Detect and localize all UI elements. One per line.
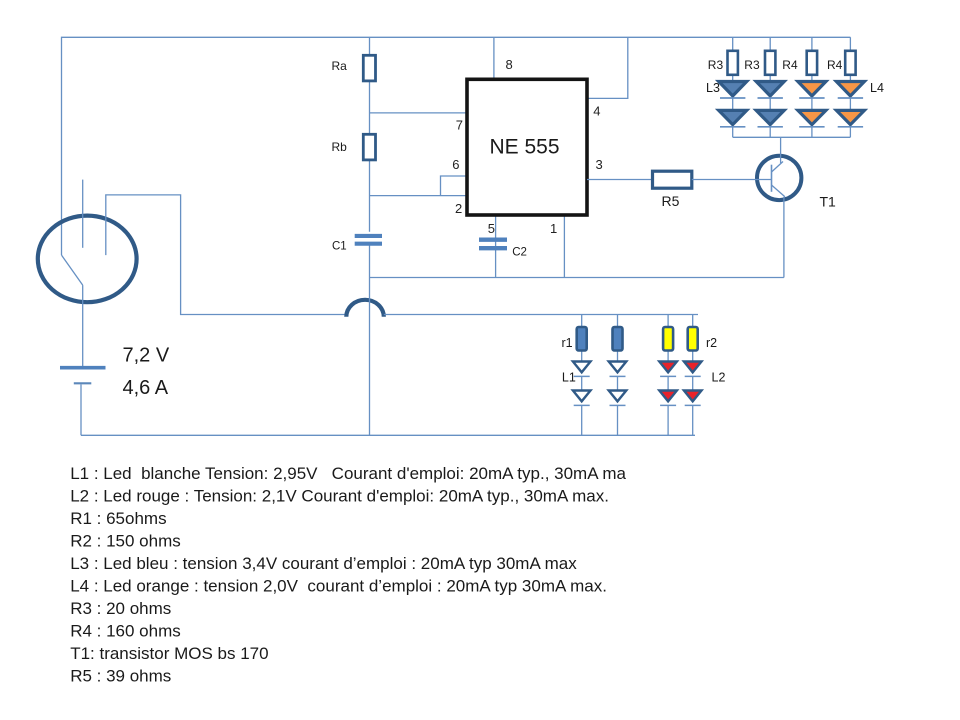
LED L1 column 2 top [609,362,627,377]
LED L3 column 2 top [756,82,784,99]
wire: pin 2 [370,195,468,197]
svg-text:L4 : Led orange : tension 2,0V: L4 : Led orange : tension 2,0V courant d… [70,576,607,595]
wire: LED array column leads [733,37,851,137]
LED L4 column 3 top [798,82,826,99]
svg-text:4: 4 [593,104,600,119]
svg-text:R4: R4 [782,58,798,72]
svg-text:L1 : Led blanche Tension: 2,9: L1 : Led blanche Tension: 2,95V Courant … [70,464,626,483]
LED L3 column 2 bottom [756,110,784,126]
svg-text:L3: L3 [706,81,720,95]
LED L3 column 1 top [706,81,747,98]
svg-text:R4: R4 [827,58,843,72]
resistor R4 (col 4) [827,51,856,75]
svg-text:5: 5 [488,221,495,236]
svg-text:R3: R3 [744,58,760,72]
svg-text:C2: C2 [512,247,527,259]
wire: pin 6 jog [441,176,468,196]
LED L2 column 4 bottom [684,391,702,406]
resistor Rb [332,134,376,160]
LED L1 column 1 bottom [573,391,591,406]
resistor Ra [332,55,376,81]
svg-text:8: 8 [506,57,513,72]
wire: pin 7 [370,112,468,114]
capacitor C2 [479,240,527,259]
svg-text:L3 : Led bleu : tension 3,4V c: L3 : Led bleu : tension 3,4V courant d’e… [70,554,577,573]
svg-text:R5 : 39 ohms: R5 : 39 ohms [70,666,171,685]
resistor r2 (col 3) [663,327,673,351]
wire: LED array bottom rail [733,136,851,138]
transistor T1 [692,137,836,209]
op IC U1 NE 555 [467,79,587,215]
svg-text:L1: L1 [562,370,576,384]
switch S1 circle [38,216,137,303]
svg-text:R4 : 160 ohms: R4 : 160 ohms [70,621,181,640]
svg-text:Rb: Rb [332,140,348,154]
wire: bottom LED branch column leads [582,315,693,436]
resistor r1 (col 2) [613,327,623,351]
resistor r2 (col 4) [688,327,717,351]
wire: Ra/Rb/C1 rail [369,37,371,435]
LED L4 column 4 bottom [836,110,864,126]
svg-text:L4: L4 [870,81,884,95]
wire: top supply rail with left corner [62,37,851,255]
LED L2 column 3 top [659,362,677,377]
svg-text:R5: R5 [662,193,680,209]
LED L4 column 3 bottom [798,110,826,126]
capacitor C1 [332,236,382,253]
wire: LED branch rail right of hop [384,314,698,316]
LED L2 column 4 top [684,362,726,385]
wire: pin 3 to R5 [587,179,653,181]
svg-text:4,6 A: 4,6 A [123,377,169,399]
wire: pin 8 [493,37,495,80]
svg-text:3: 3 [596,157,603,172]
wire: switch right contact to LED branch rail [106,195,346,315]
svg-text:R3 : 20 ohms: R3 : 20 ohms [70,599,171,618]
svg-text:1: 1 [550,221,557,236]
LED L1 column 2 bottom [609,391,627,406]
resistor R3 (col 2) [744,51,775,75]
resistor R5 [653,171,692,209]
resistor R3 (col 1) [708,51,738,75]
svg-text:7,2 V: 7,2 V [123,344,170,366]
LED L4 column 4 top [836,81,884,98]
svg-text:R3: R3 [708,58,724,72]
LED L2 column 3 bottom [659,391,677,406]
LED L1 column 1 top [562,362,591,385]
svg-text:7: 7 [456,118,463,133]
switch S1 blade [62,255,83,285]
svg-text:T1: transistor MOS bs 170: T1: transistor MOS bs 170 [70,644,268,663]
svg-text:T1: T1 [820,194,837,210]
wire: pin 4 [587,37,628,98]
wire: pin 5 lead [495,215,497,278]
battery B1 [60,285,106,435]
svg-text:L2 : Led rouge : Tension: 2,1V: L2 : Led rouge : Tension: 2,1V Courant d… [70,486,609,505]
switch S1 middle contact [82,180,84,248]
svg-text:C1: C1 [332,241,347,253]
svg-text:6: 6 [452,157,459,172]
wire: emitter lead [783,197,785,278]
wire: ground wire under IC [370,277,784,279]
svg-text:L2: L2 [712,370,726,384]
resistor r1 (col 1) [562,327,587,351]
svg-text:2: 2 [455,201,462,216]
LED L3 column 1 bottom [719,110,747,126]
svg-text:r2: r2 [706,336,717,350]
svg-text:NE 555: NE 555 [489,136,559,159]
wire: pin 1 lead [563,215,565,278]
svg-text:r1: r1 [562,336,573,350]
svg-text:Ra: Ra [332,59,348,73]
crossover hop [346,300,384,317]
resistor R4 (col 3) [782,51,817,75]
svg-text:R2 : 150 ohms: R2 : 150 ohms [70,531,181,550]
svg-text:R1 : 65ohms: R1 : 65ohms [70,509,166,528]
wire: bottom ground rail [81,434,695,436]
